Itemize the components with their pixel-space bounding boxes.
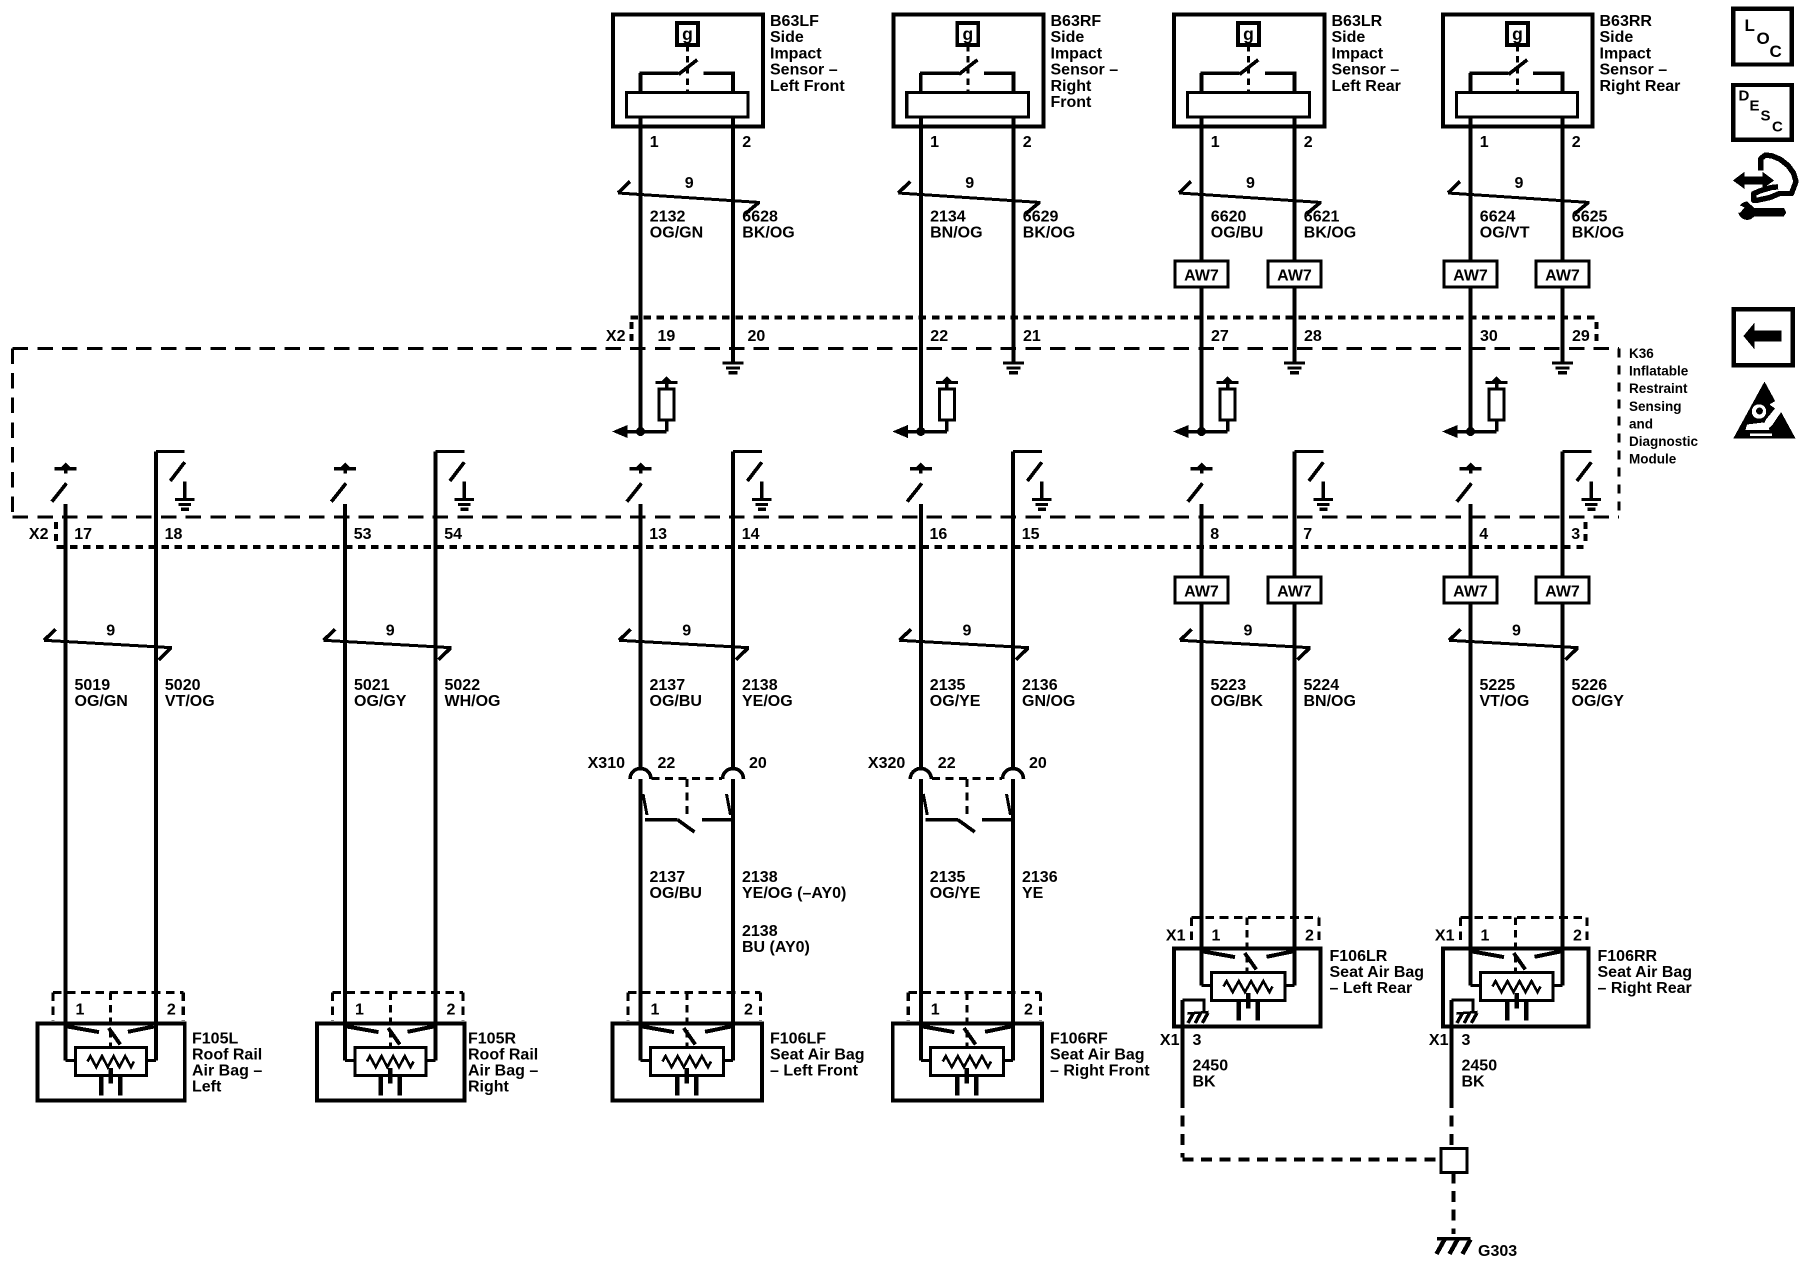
svg-text:Right: Right [468, 1078, 510, 1095]
module internal pull-up supply (pin 19) [661, 376, 672, 382]
splice pack AW7 on wire 5223 [1175, 577, 1228, 603]
svg-text:X1: X1 [1435, 928, 1455, 945]
svg-text:BK/OG: BK/OG [1023, 225, 1075, 242]
module firing switch to ground (pin 7) [1295, 452, 1334, 512]
wire gauge marker 9 (F106RF pair) [899, 623, 1029, 660]
wire 5021 OG/GY (pin 53 to F105R pin 1) [343, 504, 347, 1061]
svg-text:1: 1 [651, 1002, 660, 1019]
svg-text:5022: 5022 [445, 677, 481, 694]
svg-text:1: 1 [355, 1002, 364, 1019]
svg-text:F105R: F105R [468, 1030, 516, 1047]
svg-text:Roof Rail: Roof Rail [192, 1046, 262, 1063]
svg-text:9: 9 [962, 623, 971, 640]
svg-text:Roof Rail: Roof Rail [468, 1046, 538, 1063]
module firing switch to ground (pin 14) [733, 452, 772, 512]
X2 bottom right separator [1584, 522, 1588, 545]
svg-text:B63RR: B63RR [1600, 13, 1653, 30]
module internal arrow (pin 27) [1173, 425, 1189, 438]
wire 5226 OG/GY (pin 3 to F106RR pin 2) [1561, 452, 1565, 986]
air bag F106LF box [613, 1024, 763, 1101]
F105R harness connector (dashed) [333, 993, 464, 1048]
wire label 5022 WH/OG [445, 677, 501, 710]
F106LR name label [1330, 948, 1425, 997]
svg-text:GN/OG: GN/OG [1022, 693, 1075, 710]
svg-text:9: 9 [1244, 623, 1253, 640]
side impact sensor B63RR [1443, 15, 1593, 127]
svg-text:– Left Front: – Left Front [770, 1062, 859, 1079]
module firing switch to supply (pin 4) [1457, 463, 1482, 502]
svg-text:AW7: AW7 [1453, 584, 1488, 601]
module internal ground (pin 28) [1284, 362, 1305, 365]
svg-text:F106RF: F106RF [1050, 1030, 1108, 1047]
module internal arrow (pin 19) [612, 425, 628, 438]
svg-text:19: 19 [658, 328, 676, 345]
svg-text:YE/OG: YE/OG [742, 693, 793, 710]
svg-text:2137: 2137 [650, 677, 686, 694]
svg-text:Right Rear: Right Rear [1600, 78, 1681, 95]
svg-text:1: 1 [930, 134, 939, 151]
splice pack AW7 on wire 6624 [1444, 261, 1497, 287]
module firing switch to supply (pin 53) [331, 463, 356, 502]
splice pack AW7 on wire 6620 [1175, 261, 1228, 287]
svg-text:30: 30 [1480, 328, 1498, 345]
svg-text:9: 9 [386, 623, 395, 640]
module firing switch to supply (pin 16) [907, 463, 932, 502]
svg-text:6621: 6621 [1304, 209, 1340, 226]
module firing switch to supply (pin 8) [1188, 463, 1213, 502]
wire 2135 OG/YE (pin 16 to F106RF pin 1) [919, 504, 923, 1061]
wire 2450 BK (X1 pin 3) solid segment [1181, 1000, 1185, 1097]
icon LOC box [1733, 9, 1792, 65]
svg-text:OG/YE: OG/YE [930, 693, 981, 710]
F106LR connector X1 (dashed) [1192, 918, 1320, 973]
svg-text:AW7: AW7 [1277, 584, 1312, 601]
icon adjustable component (arrows and wrench) [1733, 155, 1796, 220]
wire 2137 OG/BU (pin 13 to F106LF pin 1) [639, 504, 643, 1061]
svg-text:Left Rear: Left Rear [1332, 78, 1401, 95]
wire label 6629 BK/OG [1023, 209, 1075, 242]
svg-text:2136: 2136 [1022, 677, 1058, 694]
svg-text:9: 9 [685, 175, 694, 192]
svg-text:1: 1 [1481, 928, 1490, 945]
wire 2450 BK (X1 pin 3) solid segment [1450, 1000, 1454, 1097]
F106RR internal chassis ground symbol [1457, 1012, 1478, 1023]
svg-text:BK: BK [1462, 1074, 1486, 1091]
svg-text:2138: 2138 [742, 923, 778, 940]
svg-text:5225: 5225 [1480, 677, 1516, 694]
connector X2 bottom dotted line [57, 545, 1584, 549]
svg-text:16: 16 [930, 526, 948, 543]
svg-text:53: 53 [354, 526, 372, 543]
svg-text:BU (AY0): BU (AY0) [742, 939, 810, 956]
wire label 2136 GN/OG [1022, 677, 1075, 710]
svg-text:Sensing: Sensing [1629, 399, 1682, 414]
svg-text:– Right Front: – Right Front [1050, 1062, 1150, 1079]
wire label 2135 OG/YE (below X320) [930, 869, 981, 902]
wire gauge marker 9 (F106LF pair) [619, 623, 749, 660]
wire gauge marker 9 (B63LF pair) [618, 175, 760, 214]
svg-text:g: g [1243, 24, 1254, 44]
svg-text:AW7: AW7 [1453, 268, 1488, 285]
svg-text:22: 22 [938, 755, 956, 772]
wire 5019 OG/GN (pin 17 to F105L pin 1) [64, 504, 68, 1061]
wire label 2138 YE/OG (–AY0) (below X310) [742, 869, 846, 902]
svg-text:X310: X310 [588, 755, 625, 772]
F106RF name label [1050, 1030, 1150, 1079]
splice junction box [1441, 1149, 1467, 1173]
X320 terminal bump pin 20 [1003, 769, 1024, 780]
svg-text:2: 2 [1573, 928, 1582, 945]
wire 2450 BK dashed horizontal run to splice [1183, 1158, 1439, 1162]
svg-text:2: 2 [1304, 134, 1313, 151]
svg-text:2: 2 [1024, 1002, 1033, 1019]
air bag F106LR box [1174, 949, 1321, 1027]
air bag F106RR squib symbol [1471, 952, 1563, 1021]
wire gauge marker 9 (B63RF pair) [898, 175, 1040, 214]
svg-text:3: 3 [1571, 526, 1580, 543]
air bag F106LF squib symbol [641, 1027, 734, 1096]
svg-text:Side: Side [1600, 29, 1634, 46]
svg-text:22: 22 [930, 328, 948, 345]
air bag F106RF squib symbol [921, 1027, 1013, 1096]
svg-text:21: 21 [1023, 328, 1041, 345]
svg-text:14: 14 [742, 526, 760, 543]
svg-text:5226: 5226 [1572, 677, 1608, 694]
B63LF name label [770, 13, 845, 95]
wire gauge marker 9 (F105R pair) [324, 623, 452, 660]
X2 top right separator [1595, 322, 1599, 346]
svg-text:2137: 2137 [650, 869, 686, 886]
svg-text:AW7: AW7 [1184, 268, 1219, 285]
chassis ground G303 symbol [1437, 1239, 1471, 1254]
F106RR name label [1598, 948, 1693, 997]
wire label 5019 OG/GN [75, 677, 128, 710]
svg-text:2134: 2134 [930, 209, 966, 226]
svg-text:Impact: Impact [1600, 45, 1652, 62]
module firing switch to ground (pin 54) [436, 452, 475, 512]
wire label 2137 OG/BU [650, 677, 702, 710]
svg-text:2138: 2138 [742, 677, 778, 694]
wire label 2450 BK [1462, 1058, 1498, 1091]
svg-text:BN/OG: BN/OG [1304, 693, 1356, 710]
svg-text:28: 28 [1304, 328, 1322, 345]
svg-text:54: 54 [444, 526, 462, 543]
svg-text:Left Front: Left Front [770, 78, 845, 95]
svg-text:17: 17 [74, 526, 92, 543]
wire gauge marker 9 (F105L pair) [44, 623, 172, 660]
F105R name label [468, 1030, 538, 1095]
svg-text:5223: 5223 [1211, 677, 1247, 694]
svg-text:8: 8 [1210, 526, 1219, 543]
wire gauge marker 9 (F106LR pair) [1180, 623, 1311, 660]
wire 2450 BK dashed segment (F106LR side) [1181, 1097, 1185, 1158]
wire 5223 OG/BK (pin 8 to F106LR pin 1) [1200, 504, 1204, 986]
svg-text:2450: 2450 [1462, 1058, 1498, 1075]
module firing switch to supply (pin 17) [52, 463, 77, 502]
svg-text:g: g [1512, 24, 1523, 44]
wire gauge marker 9 (F106RR pair) [1449, 623, 1579, 660]
wire 6628 BK/OG (pin 2 down to module pin 20) [731, 117, 735, 362]
wire label 2138 BU (AY0) [742, 923, 810, 956]
wire label 2132 OG/GN [650, 209, 703, 242]
F106LR internal ground bracket pin 3 [1183, 1000, 1206, 1013]
air bag F106RR box [1443, 949, 1589, 1027]
svg-text:6620: 6620 [1211, 209, 1247, 226]
module internal wire to sensing circuit (pin 27) [1189, 427, 1228, 436]
module internal arrow (pin 30) [1442, 425, 1458, 438]
svg-text:G303: G303 [1478, 1243, 1517, 1260]
svg-text:Diagnostic: Diagnostic [1629, 434, 1699, 449]
svg-text:X1: X1 [1429, 1032, 1449, 1049]
svg-text:1: 1 [1480, 134, 1489, 151]
wire 2132 OG/GN (pin 1 down to module pin 19) [639, 117, 643, 432]
svg-text:2: 2 [1305, 928, 1314, 945]
svg-text:OG/GN: OG/GN [650, 225, 703, 242]
B63LR name label [1332, 13, 1401, 95]
X310 terminal bump pin 20 [723, 769, 744, 780]
svg-text:B63LR: B63LR [1332, 13, 1383, 30]
F106RR connector X1 (dashed) [1461, 918, 1588, 973]
wire 2136 GN/OG (pin 15 to F106RF pin 2) [1011, 452, 1015, 1061]
wire 2134 BN/OG (pin 1 down to module pin 22) [919, 117, 923, 432]
wire gauge marker 9 (B63RR pair) [1448, 175, 1590, 214]
air bag F105L box [38, 1024, 185, 1101]
splice pack AW7 on wire 5226 [1536, 577, 1589, 603]
svg-text:3: 3 [1193, 1032, 1202, 1049]
svg-text:– Left Rear: – Left Rear [1330, 980, 1413, 997]
module firing switch to ground (pin 18) [156, 452, 195, 512]
svg-text:– Right Rear: – Right Rear [1598, 980, 1692, 997]
svg-text:X320: X320 [868, 755, 905, 772]
svg-text:1: 1 [1211, 134, 1220, 151]
module firing switch to ground (pin 15) [1013, 452, 1052, 512]
wire label 2134 BN/OG [930, 209, 982, 242]
svg-text:20: 20 [749, 755, 767, 772]
svg-text:1: 1 [931, 1002, 940, 1019]
svg-text:E: E [1750, 98, 1760, 115]
wire label 2450 BK [1193, 1058, 1229, 1091]
F106LF harness connector (dashed) [628, 993, 761, 1048]
svg-text:OG/GN: OG/GN [75, 693, 128, 710]
svg-text:27: 27 [1211, 328, 1229, 345]
wire label 5223 OG/BK [1211, 677, 1264, 710]
svg-text:Sensor –: Sensor – [1332, 62, 1400, 79]
side impact sensor B63LR [1174, 15, 1325, 127]
svg-text:9: 9 [1246, 175, 1255, 192]
module internal resistor (pin 27) [1220, 387, 1235, 432]
svg-text:Left: Left [192, 1078, 222, 1095]
svg-text:WH/OG: WH/OG [445, 693, 501, 710]
svg-text:YE: YE [1022, 885, 1044, 902]
wire 6625 BK/OG (pin 2 down to module pin 29) [1561, 117, 1565, 362]
svg-text:Impact: Impact [1332, 45, 1384, 62]
wire 2450 BK dashed segment (F106RR side) [1450, 1097, 1454, 1146]
module internal wire to sensing circuit (pin 30) [1458, 427, 1497, 436]
air bag F106LR squib symbol [1202, 952, 1295, 1021]
wire 6620 OG/BU (pin 1 down to module pin 27) [1200, 117, 1204, 432]
wire label 5021 OG/GY [354, 677, 407, 710]
module internal ground (pin 29) [1552, 362, 1573, 365]
svg-text:Sensor –: Sensor – [1051, 62, 1119, 79]
svg-text:Sensor –: Sensor – [1600, 62, 1668, 79]
svg-text:6624: 6624 [1480, 209, 1516, 226]
svg-text:B63LF: B63LF [770, 13, 819, 30]
icon back-arrow box [1734, 309, 1793, 365]
wire 2450 BK dashed segment to ground [1452, 1173, 1456, 1235]
module internal ground (pin 21) [1003, 362, 1024, 365]
module internal arrow (pin 22) [892, 425, 908, 438]
svg-text:AW7: AW7 [1545, 584, 1580, 601]
module internal wire to sensing circuit (pin 19) [628, 427, 667, 436]
svg-text:Side: Side [1051, 29, 1085, 46]
svg-text:6629: 6629 [1023, 209, 1059, 226]
svg-text:AW7: AW7 [1184, 584, 1219, 601]
svg-text:2: 2 [1023, 134, 1032, 151]
svg-text:22: 22 [658, 755, 676, 772]
svg-text:Air Bag –: Air Bag – [468, 1062, 538, 1079]
X320 shorting-bar dashed links [932, 778, 1002, 818]
wire label 5225 VT/OG [1480, 677, 1530, 710]
wire label 5226 OG/GY [1572, 677, 1625, 710]
svg-text:OG/YE: OG/YE [930, 885, 981, 902]
wire 5224 BN/OG (pin 7 to F106LR pin 2) [1293, 452, 1297, 986]
svg-text:OG/VT: OG/VT [1480, 225, 1530, 242]
svg-text:OG/BU: OG/BU [650, 693, 702, 710]
svg-text:OG/GY: OG/GY [354, 693, 407, 710]
svg-text:Module: Module [1629, 452, 1677, 467]
B63RF name label [1051, 13, 1119, 111]
wire label 5224 BN/OG [1304, 677, 1356, 710]
svg-text:5020: 5020 [165, 677, 201, 694]
svg-text:X1: X1 [1160, 1032, 1180, 1049]
air bag F105R box [317, 1024, 465, 1101]
svg-text:13: 13 [649, 526, 667, 543]
svg-text:Seat Air Bag: Seat Air Bag [770, 1046, 865, 1063]
svg-text:X1: X1 [1166, 928, 1186, 945]
svg-text:7: 7 [1303, 526, 1312, 543]
svg-text:20: 20 [1029, 755, 1047, 772]
side impact sensor B63LF [613, 15, 763, 127]
svg-text:X2: X2 [606, 328, 626, 345]
F106RR internal ground bracket pin 3 [1452, 1000, 1475, 1013]
splice pack AW7 on wire 5225 [1444, 577, 1497, 603]
svg-text:F105L: F105L [192, 1030, 238, 1047]
svg-text:VT/OG: VT/OG [1480, 693, 1530, 710]
air bag F105L squib symbol [66, 1027, 156, 1096]
splice pack AW7 on wire 5224 [1268, 577, 1321, 603]
wire 6621 BK/OG (pin 2 down to module pin 28) [1293, 117, 1297, 362]
svg-text:D: D [1739, 88, 1750, 105]
svg-text:Front: Front [1051, 94, 1093, 111]
svg-text:1: 1 [650, 134, 659, 151]
module internal ground (pin 20) [723, 362, 744, 365]
wire 6624 OG/VT (pin 1 down to module pin 30) [1469, 117, 1473, 432]
X310 shorting bar switch [643, 794, 731, 832]
svg-text:3: 3 [1462, 1032, 1471, 1049]
svg-text:B63RF: B63RF [1051, 13, 1102, 30]
wire label 2135 OG/YE [930, 677, 981, 710]
splice pack AW7 on wire 6621 [1268, 261, 1321, 287]
svg-text:9: 9 [965, 175, 974, 192]
svg-text:1: 1 [76, 1002, 85, 1019]
svg-text:Restraint: Restraint [1629, 381, 1688, 396]
air bag F105R squib symbol [345, 1027, 436, 1096]
module internal wire to sensing circuit (pin 22) [908, 427, 947, 436]
X310 shorting-bar dashed links [652, 778, 723, 818]
svg-text:2136: 2136 [1022, 869, 1058, 886]
svg-text:Side: Side [770, 29, 804, 46]
svg-text:BK/OG: BK/OG [1572, 225, 1624, 242]
svg-text:Seat Air Bag: Seat Air Bag [1330, 964, 1425, 981]
svg-text:and: and [1629, 416, 1653, 431]
svg-text:2138: 2138 [742, 869, 778, 886]
X310 terminal bump pin 22 [630, 769, 651, 780]
svg-text:9: 9 [1512, 623, 1521, 640]
F105L harness connector (dashed) [53, 993, 183, 1048]
module firing switch to supply (pin 13) [627, 463, 652, 502]
svg-text:18: 18 [165, 526, 183, 543]
wire 5225 VT/OG (pin 4 to F106RR pin 1) [1469, 504, 1473, 986]
wire label 5020 VT/OG [165, 677, 215, 710]
K36 module name label [1629, 346, 1699, 467]
svg-text:2: 2 [744, 1002, 753, 1019]
wire 5022 WH/OG (pin 54 to F105R pin 2) [434, 452, 438, 1061]
svg-text:g: g [682, 24, 693, 44]
connector X2 top designator [606, 322, 632, 346]
svg-text:2: 2 [742, 134, 751, 151]
svg-text:OG/BU: OG/BU [650, 885, 702, 902]
splice pack AW7 on wire 6625 [1536, 261, 1589, 287]
svg-text:6628: 6628 [742, 209, 778, 226]
svg-text:15: 15 [1022, 526, 1040, 543]
F106LF name label [770, 1030, 865, 1079]
module internal resistor (pin 30) [1489, 387, 1504, 432]
svg-text:2135: 2135 [930, 677, 966, 694]
wire label 2138 YE/OG [742, 677, 793, 710]
wire 6629 BK/OG (pin 2 down to module pin 21) [1012, 117, 1016, 362]
svg-text:O: O [1757, 29, 1770, 48]
svg-text:Air Bag –: Air Bag – [192, 1062, 262, 1079]
icon DESC box [1733, 85, 1792, 140]
B63RR name label [1600, 13, 1681, 95]
X320 shorting bar switch [923, 794, 1011, 832]
module firing switch to ground (pin 3) [1563, 452, 1602, 512]
wire 2138 YE/OG (pin 14 to F106LF pin 2) [731, 452, 735, 1061]
svg-text:S: S [1761, 108, 1771, 125]
svg-text:Seat Air Bag: Seat Air Bag [1598, 964, 1693, 981]
F105L name label [192, 1030, 262, 1095]
wire label 6628 BK/OG [742, 209, 794, 242]
svg-text:2132: 2132 [650, 209, 686, 226]
module internal resistor (pin 19) [659, 387, 674, 432]
svg-text:6625: 6625 [1572, 209, 1608, 226]
svg-text:2: 2 [447, 1002, 456, 1019]
wire gauge marker 9 (B63LR pair) [1179, 175, 1322, 214]
svg-text:Inflatable: Inflatable [1629, 364, 1689, 379]
svg-text:20: 20 [748, 328, 766, 345]
svg-text:2135: 2135 [930, 869, 966, 886]
F106RF harness connector (dashed) [908, 993, 1040, 1048]
module internal pull-up supply (pin 22) [941, 376, 952, 382]
X320 terminal bump pin 22 [910, 769, 931, 780]
svg-text:OG/GY: OG/GY [1572, 693, 1625, 710]
connector X2 top dotted line [631, 316, 1595, 320]
svg-text:2450: 2450 [1193, 1058, 1229, 1075]
connector X2 bottom designator [29, 522, 56, 545]
svg-text:9: 9 [682, 623, 691, 640]
svg-text:2: 2 [1572, 134, 1581, 151]
air bag F106RF box [893, 1024, 1042, 1101]
